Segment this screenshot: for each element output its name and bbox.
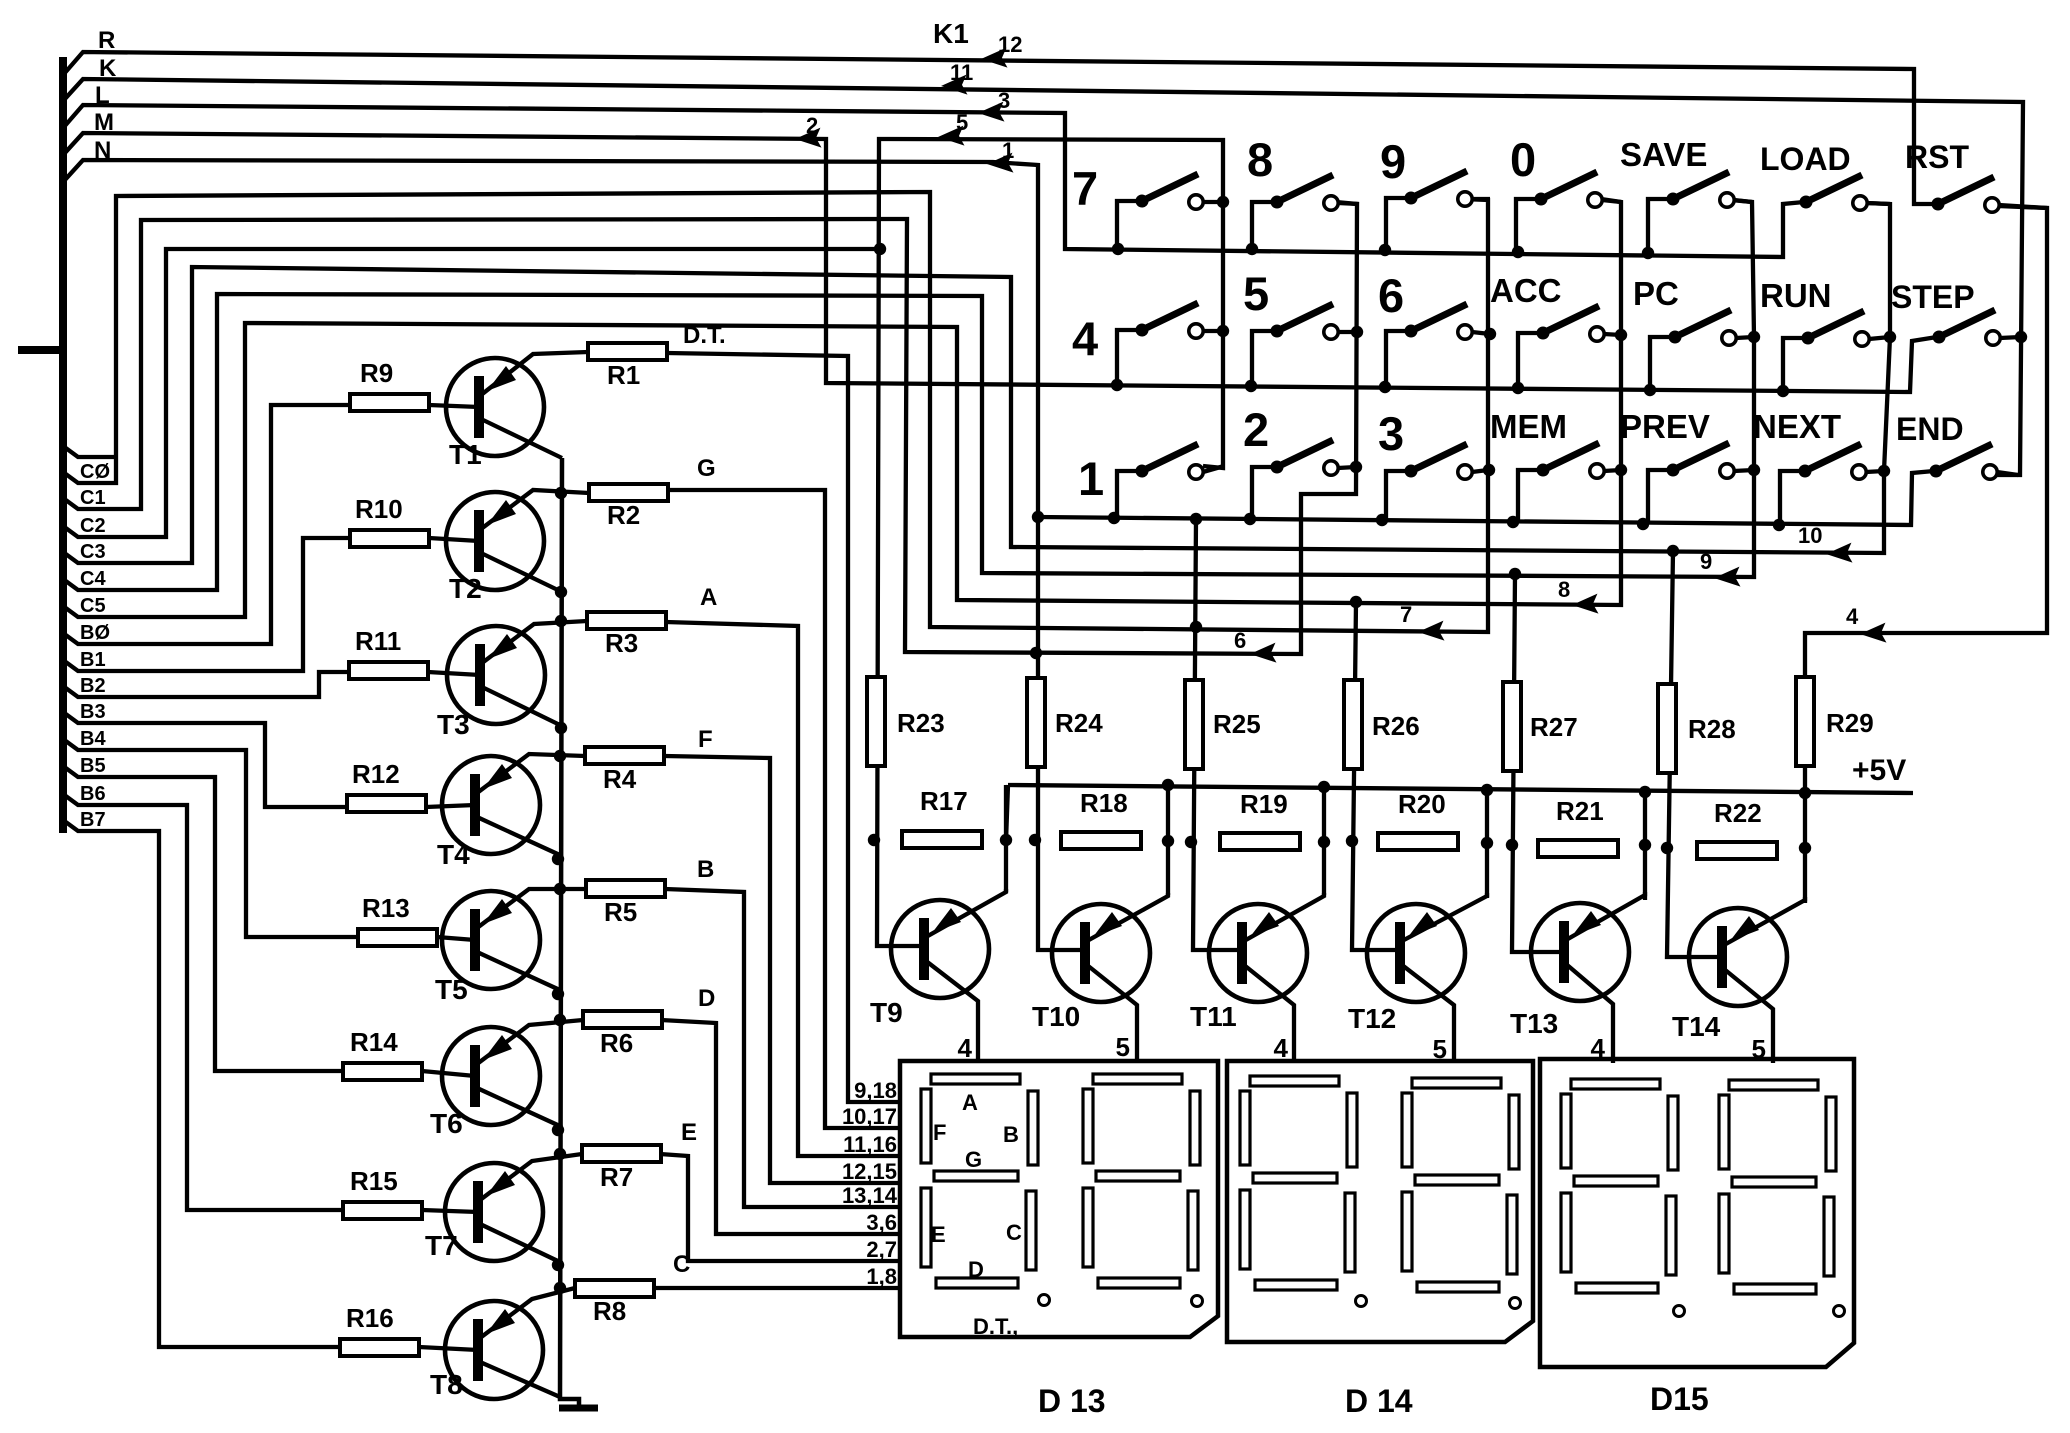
key 1 switch xyxy=(1117,444,1224,518)
key ACC switch xyxy=(1518,306,1621,388)
svg-text:5: 5 xyxy=(956,110,968,135)
svg-text:R15: R15 xyxy=(350,1166,398,1196)
svg-text:T8: T8 xyxy=(430,1369,463,1400)
net C0 wire xyxy=(63,192,1488,632)
transistor T8 emitter wire xyxy=(480,1288,575,1338)
key RST switch xyxy=(1932,177,2048,212)
transistor T5 xyxy=(442,891,540,989)
net C1 wire xyxy=(63,202,1357,654)
svg-text:R5: R5 xyxy=(604,897,637,927)
svg-text:SAVE: SAVE xyxy=(1620,136,1707,173)
display D13 segment letters xyxy=(931,1090,1022,1339)
svg-text:R24: R24 xyxy=(1055,708,1103,738)
svg-text:4: 4 xyxy=(1072,312,1098,365)
pin 4 arrow xyxy=(1846,604,1886,644)
resistor R6 xyxy=(583,1011,662,1058)
svg-text:K: K xyxy=(99,55,117,82)
svg-text:C: C xyxy=(1006,1220,1022,1245)
key 6 switch xyxy=(1386,304,1490,387)
svg-text:3: 3 xyxy=(1378,407,1404,460)
svg-text:4: 4 xyxy=(958,1033,973,1063)
resistor R9 xyxy=(350,358,429,411)
svg-text:R27: R27 xyxy=(1530,712,1578,742)
resistor R26 xyxy=(1344,680,1420,769)
resistor R5 xyxy=(586,880,665,927)
transistor T11 xyxy=(1209,904,1307,1002)
transistor T1 collector wire xyxy=(481,419,562,458)
svg-text:8: 8 xyxy=(1247,133,1273,186)
svg-text:9: 9 xyxy=(1700,549,1712,574)
svg-text:T3: T3 xyxy=(437,709,470,740)
svg-text:1: 1 xyxy=(1078,452,1104,505)
resistor R22 xyxy=(1697,798,1777,859)
svg-text:C5: C5 xyxy=(80,595,106,617)
svg-text:T1: T1 xyxy=(449,439,482,470)
display D14 decimal points xyxy=(1356,1296,1521,1309)
svg-text:B3: B3 xyxy=(80,701,106,723)
svg-text:13,14: 13,14 xyxy=(842,1183,898,1208)
svg-text:MEM: MEM xyxy=(1490,408,1567,445)
svg-text:B: B xyxy=(1003,1122,1019,1147)
transistor T14 xyxy=(1689,908,1787,1006)
svg-text:ACC: ACC xyxy=(1490,272,1562,309)
svg-text:2: 2 xyxy=(806,113,818,138)
transistor T8 collector wire xyxy=(480,1362,560,1397)
transistor T2 emitter wire xyxy=(481,490,589,529)
svg-text:F: F xyxy=(698,726,713,753)
transistor T14 collector wire xyxy=(1724,969,1773,1063)
svg-text:10: 10 xyxy=(1798,523,1822,548)
transistor T7 xyxy=(445,1163,543,1261)
display D13 body xyxy=(900,1061,1218,1337)
R28 feed wire xyxy=(1667,551,1723,957)
F wire to pin 12,15 xyxy=(665,756,900,1183)
display digit D14 left xyxy=(1240,1076,1357,1290)
svg-text:6: 6 xyxy=(1234,628,1246,653)
svg-text:F: F xyxy=(933,1120,946,1145)
resistor R18 xyxy=(1061,788,1141,849)
transistor T9 collector wire xyxy=(926,961,978,1063)
transistor T14 emitter wire xyxy=(1724,897,1805,945)
transistor T4 collector wire xyxy=(477,817,562,856)
transistor T9 emitter wire xyxy=(926,889,1006,937)
pin 3 arrow xyxy=(977,88,1010,123)
key 2 switch xyxy=(1252,440,1356,519)
svg-text:T6: T6 xyxy=(430,1108,463,1139)
svg-text:1,8: 1,8 xyxy=(866,1264,897,1289)
transistor T4 emitter wire xyxy=(477,754,585,793)
svg-text:R23: R23 xyxy=(897,708,945,738)
key 4 switch xyxy=(1117,303,1223,385)
svg-text:STEP: STEP xyxy=(1891,279,1975,315)
net C4 wire xyxy=(63,200,1754,590)
svg-text:6: 6 xyxy=(1378,269,1404,322)
svg-text:C2: C2 xyxy=(80,515,106,537)
svg-text:D: D xyxy=(698,985,715,1012)
net C2 wire xyxy=(63,139,1223,946)
svg-text:R13: R13 xyxy=(362,893,410,923)
transistor T3 base wire xyxy=(428,672,480,675)
pin 2 arrow xyxy=(794,113,821,149)
T10 emitter riser wire xyxy=(1166,785,1170,895)
svg-text:9: 9 xyxy=(1380,135,1406,188)
svg-text:K1: K1 xyxy=(933,18,969,49)
svg-text:CØ: CØ xyxy=(80,461,110,483)
resistor R20 xyxy=(1378,789,1458,850)
svg-text:8: 8 xyxy=(1558,577,1570,602)
pin 12 arrow xyxy=(980,32,1022,69)
svg-text:T10: T10 xyxy=(1032,1001,1080,1032)
svg-text:T5: T5 xyxy=(435,974,468,1005)
svg-text:R21: R21 xyxy=(1556,796,1604,826)
svg-text:T7: T7 xyxy=(425,1230,458,1261)
svg-text:B5: B5 xyxy=(80,755,106,777)
resistor R4 xyxy=(585,747,664,794)
pin 1 arrow xyxy=(986,138,1014,174)
svg-text:D 14: D 14 xyxy=(1345,1383,1413,1419)
key END switch xyxy=(1930,444,2019,479)
T14 emitter riser wire xyxy=(1803,793,1807,903)
svg-text:PREV: PREV xyxy=(1620,408,1710,445)
transistor T3 xyxy=(447,626,545,724)
pin 6 arrow xyxy=(1234,628,1276,664)
svg-text:RST: RST xyxy=(1905,139,1969,175)
key 7 switch xyxy=(1117,174,1223,249)
svg-text:C4: C4 xyxy=(80,568,106,590)
svg-text:R3: R3 xyxy=(605,628,638,658)
svg-text:B2: B2 xyxy=(80,675,106,697)
common bus of T1-T8 wire xyxy=(560,458,579,1406)
svg-text:5: 5 xyxy=(1116,1032,1130,1062)
svg-text:R6: R6 xyxy=(600,1028,633,1058)
svg-text:A: A xyxy=(962,1090,978,1115)
transistor T10 collector wire xyxy=(1087,965,1137,1063)
svg-text:B4: B4 xyxy=(80,728,106,750)
display digit D14 right xyxy=(1402,1078,1519,1292)
svg-text:2: 2 xyxy=(1243,403,1269,456)
resistor R11 xyxy=(349,626,428,679)
svg-text:LOAD: LOAD xyxy=(1760,141,1851,177)
svg-text:R2: R2 xyxy=(607,500,640,530)
display digit D15 left xyxy=(1561,1079,1678,1293)
transistor T13 collector wire xyxy=(1566,964,1613,1063)
svg-text:N: N xyxy=(94,137,111,164)
resistor R21 xyxy=(1538,796,1618,857)
svg-text:C1: C1 xyxy=(80,487,106,509)
svg-text:A: A xyxy=(700,584,717,611)
display D15 decimal points xyxy=(1674,1306,1845,1317)
svg-text:M: M xyxy=(94,109,114,136)
pin 11 arrow xyxy=(940,60,973,96)
key NEXT switch xyxy=(1780,444,1884,525)
resistor R3 xyxy=(587,612,666,658)
svg-text:R1: R1 xyxy=(607,360,640,390)
transistor T6 emitter wire xyxy=(477,1020,583,1064)
key SAVE switch xyxy=(1648,172,1752,253)
svg-text:E: E xyxy=(931,1222,946,1247)
svg-text:12: 12 xyxy=(998,32,1022,57)
svg-text:NEXT: NEXT xyxy=(1753,408,1841,445)
transistor T7 collector wire xyxy=(480,1224,562,1263)
svg-text:R14: R14 xyxy=(350,1027,398,1057)
net B6 wire xyxy=(63,794,343,1210)
resistor R2 xyxy=(589,484,668,530)
svg-text:L: L xyxy=(95,82,110,109)
D.T. wire to pin 9,18 xyxy=(667,353,900,1102)
E wire to pin 2,7 xyxy=(660,1154,900,1261)
resistor R16 xyxy=(340,1303,419,1356)
display digit D13 left xyxy=(921,1074,1038,1288)
net N wire row3 bus xyxy=(63,160,1934,950)
svg-text:BØ: BØ xyxy=(80,622,110,644)
svg-text:R25: R25 xyxy=(1213,709,1261,739)
svg-text:7: 7 xyxy=(1400,602,1412,627)
svg-text:R17: R17 xyxy=(920,786,968,816)
transistor T10 emitter wire xyxy=(1087,893,1168,941)
transistor T12 collector wire xyxy=(1402,965,1454,1063)
key 5 switch xyxy=(1252,304,1357,386)
net R wire xyxy=(63,52,1934,204)
svg-text:R16: R16 xyxy=(346,1303,394,1333)
svg-text:END: END xyxy=(1896,411,1964,447)
svg-text:R22: R22 xyxy=(1714,798,1762,828)
svg-text:C3: C3 xyxy=(80,541,106,563)
transistor T4 base wire xyxy=(426,805,475,807)
svg-text:D: D xyxy=(968,1257,984,1282)
resistor R10 xyxy=(350,494,429,547)
T11 emitter riser wire xyxy=(1322,787,1326,895)
key PC switch xyxy=(1650,310,1754,390)
svg-text:R18: R18 xyxy=(1080,788,1128,818)
display digit D15 right xyxy=(1719,1080,1836,1294)
pin 5 arrow xyxy=(937,110,968,147)
resistor R14 xyxy=(343,1027,422,1080)
svg-text:RUN: RUN xyxy=(1760,277,1832,314)
transistor T11 collector wire xyxy=(1244,965,1294,1063)
net B3 wire xyxy=(63,712,347,807)
svg-text:+5V: +5V xyxy=(1852,754,1906,787)
transistor T12 emitter wire xyxy=(1402,893,1487,941)
key LOAD switch xyxy=(1800,175,1891,210)
key RUN switch xyxy=(1783,311,1890,391)
resistor R23 xyxy=(867,677,945,766)
svg-text:B6: B6 xyxy=(80,783,106,805)
svg-text:11: 11 xyxy=(950,60,973,85)
transistor T6 base wire xyxy=(422,1071,475,1076)
transistor T3 collector wire xyxy=(482,687,562,726)
svg-text:G: G xyxy=(697,455,716,482)
resistor R27 xyxy=(1503,682,1578,771)
svg-text:3,6: 3,6 xyxy=(866,1210,897,1235)
pin 9 arrow xyxy=(1700,549,1740,588)
svg-text:R12: R12 xyxy=(352,759,400,789)
svg-text:R28: R28 xyxy=(1688,714,1736,744)
svg-text:R19: R19 xyxy=(1240,789,1288,819)
transistor T7 base wire xyxy=(422,1210,478,1212)
svg-text:4: 4 xyxy=(1846,604,1859,629)
transistor T10 xyxy=(1052,904,1150,1002)
transistor T3 emitter wire xyxy=(482,621,587,663)
net B1 wire xyxy=(63,538,350,671)
svg-text:D.T.: D.T. xyxy=(683,322,726,349)
B wire to pin 13,14 xyxy=(665,889,900,1207)
display D15 body xyxy=(1540,1059,1854,1367)
svg-text:T12: T12 xyxy=(1348,1003,1396,1034)
display D14 body xyxy=(1227,1061,1533,1342)
svg-text:D15: D15 xyxy=(1650,1381,1709,1417)
net B0 wire xyxy=(63,405,350,644)
svg-text:PC: PC xyxy=(1633,275,1679,312)
svg-text:R9: R9 xyxy=(360,358,393,388)
svg-text:E: E xyxy=(681,1119,697,1146)
net L wire row1 bus xyxy=(63,105,1804,257)
svg-text:T11: T11 xyxy=(1190,1001,1237,1032)
T12 emitter riser wire xyxy=(1485,790,1489,898)
svg-text:2,7: 2,7 xyxy=(866,1237,897,1262)
T13 emitter riser wire xyxy=(1643,792,1647,900)
net B2 wire xyxy=(63,672,349,697)
resistor R25 xyxy=(1185,680,1261,769)
resistor R13 xyxy=(358,893,437,946)
R26 feed wire xyxy=(1352,602,1401,950)
net C3 wire xyxy=(63,203,1890,563)
svg-text:7: 7 xyxy=(1072,162,1098,215)
svg-text:T14: T14 xyxy=(1672,1011,1721,1042)
svg-text:G: G xyxy=(965,1147,982,1172)
resistor R19 xyxy=(1220,789,1300,850)
svg-text:R4: R4 xyxy=(603,764,637,794)
resistor R12 xyxy=(347,759,426,812)
wire stub above C0 xyxy=(63,446,118,457)
svg-text:R11: R11 xyxy=(355,626,401,656)
key STEP switch xyxy=(1933,310,2022,345)
display digit D13 right xyxy=(1083,1074,1200,1288)
svg-text:B1: B1 xyxy=(80,649,106,671)
transistor T2 collector wire xyxy=(481,553,562,592)
G wire to pin 10,17 xyxy=(667,490,900,1128)
transistor T1 base wire xyxy=(429,405,479,407)
svg-text:B: B xyxy=(697,856,714,883)
transistor T5 base wire xyxy=(437,937,475,940)
svg-text:B7: B7 xyxy=(80,809,106,831)
transistor T13 xyxy=(1531,903,1629,1001)
A wire to pin 11,16 xyxy=(666,622,900,1156)
pin 8 arrow xyxy=(1558,577,1598,615)
svg-text:0: 0 xyxy=(1510,133,1536,186)
svg-text:R10: R10 xyxy=(355,494,403,524)
key MEM switch xyxy=(1518,443,1621,522)
resistor R17 xyxy=(902,786,982,848)
svg-text:R8: R8 xyxy=(593,1296,626,1326)
key 3 switch xyxy=(1386,444,1488,520)
transistor T8 xyxy=(445,1301,543,1399)
svg-text:1: 1 xyxy=(1002,138,1014,163)
ground xyxy=(559,1405,598,1412)
resistor R28 xyxy=(1658,684,1736,773)
transistor T1 xyxy=(446,358,544,456)
resistor R8 xyxy=(575,1280,654,1326)
svg-text:T13: T13 xyxy=(1510,1008,1558,1039)
transistor T4 xyxy=(442,756,540,854)
R27 feed wire xyxy=(1512,574,1565,952)
transistor T11 emitter wire xyxy=(1244,893,1324,941)
transistor T8 base wire xyxy=(419,1347,478,1350)
transistor T12 xyxy=(1367,904,1465,1002)
key 8 switch xyxy=(1252,175,1359,249)
svg-text:D 13: D 13 xyxy=(1038,1383,1106,1419)
svg-text:T4: T4 xyxy=(437,839,470,870)
resistor R7 xyxy=(582,1145,661,1192)
key 0 switch xyxy=(1516,172,1621,252)
transistor T6 xyxy=(442,1027,540,1125)
T9 emitter riser wire xyxy=(1004,785,1008,892)
svg-text:12,15: 12,15 xyxy=(842,1159,897,1184)
transistor T5 emitter wire xyxy=(477,889,586,928)
net B7 wire xyxy=(63,820,340,1347)
svg-text:10,17: 10,17 xyxy=(842,1104,897,1129)
pin 10 arrow xyxy=(1798,523,1852,564)
svg-text:R: R xyxy=(98,27,115,54)
transistor T7 emitter wire xyxy=(480,1154,582,1200)
svg-text:3: 3 xyxy=(998,88,1010,113)
key PREV switch xyxy=(1648,443,1754,524)
net K wire xyxy=(63,79,2023,475)
left connector bus xyxy=(18,57,63,833)
svg-text:T9: T9 xyxy=(870,997,903,1028)
svg-text:4: 4 xyxy=(1274,1033,1289,1063)
key 9 switch xyxy=(1386,171,1490,250)
svg-text:R20: R20 xyxy=(1398,789,1446,819)
+5V rail wire xyxy=(1008,785,1913,793)
svg-text:R29: R29 xyxy=(1826,708,1874,738)
D wire to pin 3,6 xyxy=(661,1020,900,1234)
transistor T13 emitter wire xyxy=(1566,892,1645,940)
net M wire row2 bus xyxy=(63,133,1937,392)
resistor R1 xyxy=(588,343,667,390)
transistor T9 xyxy=(891,900,989,998)
transistor T2 xyxy=(446,492,544,590)
net C5 wire xyxy=(63,199,1621,617)
resistor R24 xyxy=(1027,678,1103,767)
svg-text:R26: R26 xyxy=(1372,711,1420,741)
svg-text:11,16: 11,16 xyxy=(843,1132,897,1157)
resistor R15 xyxy=(343,1166,422,1219)
pin 7 arrow xyxy=(1400,602,1444,642)
display D13 decimal points xyxy=(1039,1295,1203,1307)
transistor T1 emitter wire xyxy=(481,352,588,395)
net B5 wire xyxy=(63,766,343,1071)
R25 feed wire xyxy=(1193,519,1242,950)
svg-text:9,18: 9,18 xyxy=(854,1078,897,1103)
svg-text:5: 5 xyxy=(1243,267,1269,320)
resistor R29 xyxy=(1796,677,1874,766)
transistor T2 base wire xyxy=(429,538,479,541)
svg-text:T2: T2 xyxy=(449,573,482,604)
transistor T6 collector wire xyxy=(477,1088,562,1127)
RST to R29 wire xyxy=(1805,206,2047,793)
C wire to pin 1,8 xyxy=(653,1286,900,1290)
svg-text:D.T.,: D.T., xyxy=(973,1314,1018,1339)
svg-text:R7: R7 xyxy=(600,1162,633,1192)
transistor T5 collector wire xyxy=(477,952,562,991)
rail corner wire xyxy=(1006,785,1008,841)
net B4 wire xyxy=(63,739,358,937)
